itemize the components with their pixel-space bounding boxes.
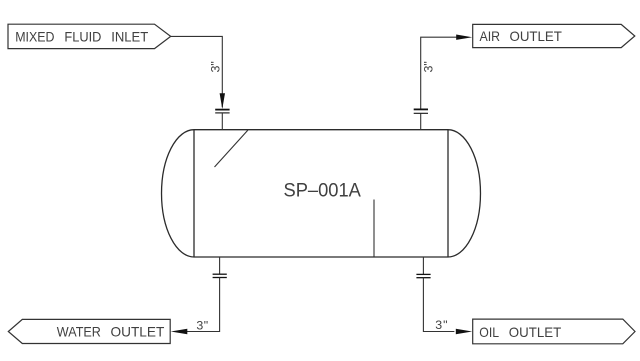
label flag WATER OUTLET	[8, 319, 170, 343]
wire: air outlet pipe up from nozzle then right	[421, 37, 457, 109]
svg-text:OUTLET: OUTLET	[510, 28, 563, 44]
label flag MIXED FLUID INLET	[8, 24, 171, 48]
label flag OIL OUTLET	[473, 319, 635, 344]
nozzle stub (water outlet, bottom of vessel)	[219, 257, 221, 274]
svg-text:AIR: AIR	[480, 28, 501, 44]
vessel internal vertical leader line under tag	[373, 200, 375, 257]
arrowhead right into OIL OUTLET flag	[456, 329, 472, 334]
wire: water outlet pipe down then left	[187, 278, 220, 332]
label flag AIR OUTLET	[473, 24, 635, 47]
vessel internal diagonal line	[215, 130, 249, 167]
svg-text:INLET: INLET	[111, 28, 149, 44]
flange pair (inlet nozzle)	[215, 110, 229, 113]
svg-text:SP–001A: SP–001A	[284, 179, 361, 201]
svg-text:FLUID: FLUID	[64, 28, 101, 44]
svg-text:WATER: WATER	[57, 324, 101, 340]
arrowhead right into AIR OUTLET flag	[456, 35, 472, 40]
svg-text:OUTLET: OUTLET	[111, 324, 165, 340]
svg-text:3": 3"	[422, 61, 436, 72]
nozzle stub (inlet, top of vessel)	[221, 113, 223, 130]
svg-text:OIL: OIL	[479, 324, 499, 340]
arrowhead down at inlet nozzle	[220, 93, 225, 109]
flange pair (water outlet nozzle)	[213, 274, 227, 277]
flange pair (air outlet nozzle)	[414, 109, 428, 113]
svg-text:MIXED: MIXED	[15, 28, 54, 44]
svg-text:3": 3"	[209, 61, 223, 72]
arrowhead left into WATER OUTLET flag	[171, 329, 188, 334]
nozzle stub (oil outlet, bottom of vessel)	[422, 257, 424, 274]
wire: oil outlet pipe down then right	[423, 278, 454, 332]
vessel SP-001A shell	[162, 130, 481, 257]
svg-text:3": 3"	[196, 318, 208, 332]
svg-text:OUTLET: OUTLET	[509, 324, 562, 340]
flange pair (oil outlet nozzle)	[416, 274, 430, 277]
svg-text:3": 3"	[435, 318, 447, 332]
wire: inlet pipe from flag tip, right then down	[171, 36, 223, 107]
nozzle stub (air outlet, top of vessel)	[420, 113, 422, 129]
